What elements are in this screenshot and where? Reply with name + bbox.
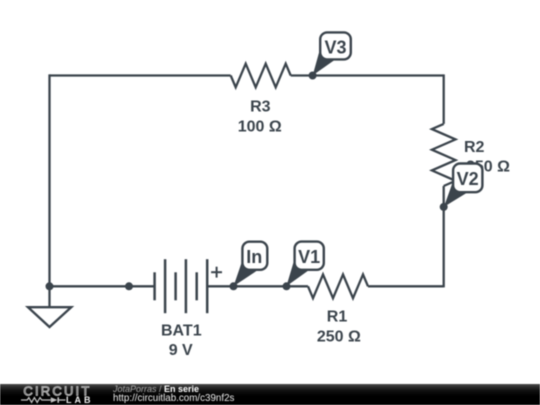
wire bottom left segment [50,285,155,287]
wire top horizontal right segment [291,74,444,76]
meta line 1 [113,385,199,394]
node In dot [230,282,238,290]
node dot battery left [125,282,133,290]
flag V2 [444,164,483,207]
ground symbol triangle [28,307,71,327]
logo LAB [66,396,94,405]
node ground junction dot [46,282,54,290]
wire right vertical lower segment [443,186,445,287]
resistor R2 zigzag [432,124,456,186]
battery BAT1 tall plate 1 [164,259,167,313]
flag V3 [313,32,351,75]
battery BAT1 short plate 2 [174,272,177,300]
meta line 2 [113,394,234,404]
battery BAT1 left short plate [153,272,156,300]
flag In [234,242,268,287]
wire left vertical [48,74,50,286]
battery BAT1 short plate 3 [195,272,198,300]
battery plus sign [211,271,222,273]
flag V1 [286,242,323,287]
wire bottom middle segment [207,285,308,287]
battery BAT1 tall plate 2 [185,259,188,313]
node V2 dot [440,203,448,211]
wire right vertical upper segment [443,74,445,124]
footer bar [0,384,540,405]
logo squiggle [21,395,67,405]
resistor R3 zigzag [231,64,291,88]
resistor R1 zigzag [308,275,368,299]
node V1 dot [283,282,291,290]
node V3 dot [309,72,317,80]
wire top horizontal left segment [50,74,231,76]
ground wire stub [48,286,50,307]
wire bottom right segment [368,285,444,287]
battery BAT1 tall plate 3 [206,259,209,313]
